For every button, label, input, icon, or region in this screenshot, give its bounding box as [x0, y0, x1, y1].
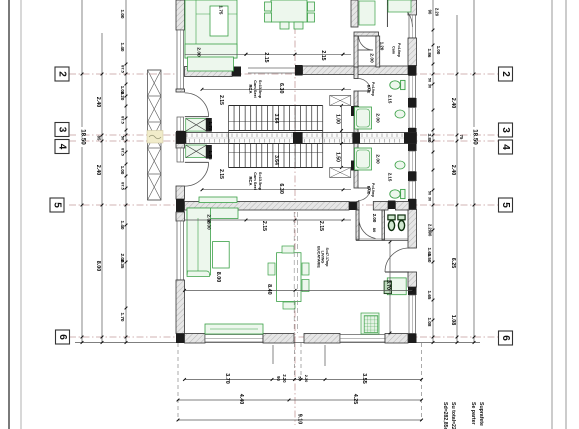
svg-text:1.08: 1.08 [450, 315, 456, 326]
svg-text:Se parter: Se parter [470, 402, 476, 425]
svg-text:Suprafete: Suprafete [478, 402, 484, 426]
svg-text:2.15: 2.15 [387, 173, 392, 182]
svg-text:Cam Seel: Cam Seel [253, 80, 258, 98]
svg-text:3.64: 3.64 [273, 114, 279, 124]
svg-text:1.75: 1.75 [207, 150, 213, 160]
svg-text:2.15: 2.15 [218, 95, 224, 105]
svg-text:6: 6 [500, 335, 511, 341]
svg-text:2.15: 2.15 [218, 169, 224, 179]
svg-text:2.20: 2.20 [282, 374, 287, 383]
svg-text:1.70: 1.70 [120, 313, 125, 322]
svg-text:Sd=282,85mp: Sd=282,85mp [442, 402, 448, 429]
svg-text:90: 90 [276, 376, 281, 381]
svg-text:90: 90 [427, 232, 432, 237]
svg-text:90: 90 [427, 10, 432, 15]
svg-text:87.5: 87.5 [120, 148, 125, 157]
svg-text:2.20: 2.20 [304, 375, 309, 383]
svg-text:1.50: 1.50 [335, 152, 341, 162]
svg-text:4.25: 4.25 [352, 394, 358, 405]
svg-text:1.00: 1.00 [120, 10, 125, 19]
svg-text:85: 85 [96, 136, 101, 141]
svg-text:2: 2 [57, 71, 68, 77]
svg-text:P=4.9mp: P=4.9mp [371, 82, 375, 96]
svg-text:2.35: 2.35 [120, 260, 125, 269]
svg-text:50: 50 [427, 191, 432, 195]
svg-text:BAIE: BAIE [367, 186, 371, 195]
svg-text:2: 2 [500, 71, 511, 77]
svg-text:3.64: 3.64 [273, 155, 279, 165]
svg-text:2.20: 2.20 [120, 92, 125, 101]
svg-text:2.00: 2.00 [372, 214, 377, 223]
svg-text:3.70: 3.70 [224, 373, 230, 384]
svg-text:4: 4 [57, 144, 68, 150]
svg-text:2.15: 2.15 [318, 221, 324, 231]
svg-text:RCA: RCA [248, 176, 253, 185]
svg-text:2.40: 2.40 [95, 97, 101, 108]
svg-text:6.25: 6.25 [450, 258, 456, 269]
svg-text:3: 3 [500, 127, 511, 133]
svg-text:2.00: 2.00 [374, 113, 380, 123]
svg-text:2.40: 2.40 [450, 165, 456, 176]
svg-text:8.00: 8.00 [95, 261, 101, 272]
svg-text:6.30: 6.30 [278, 183, 284, 194]
svg-text:Su total=221,4mp: Su total=221,4mp [450, 402, 456, 429]
svg-text:6.30: 6.30 [278, 83, 284, 94]
svg-text:2.20: 2.20 [434, 8, 439, 17]
svg-text:2.40: 2.40 [450, 98, 456, 109]
svg-text:50: 50 [427, 78, 432, 82]
svg-text:1.00: 1.00 [120, 166, 125, 175]
svg-text:2.15: 2.15 [261, 221, 267, 231]
svg-text:2.00: 2.00 [374, 154, 380, 164]
svg-text:4.40: 4.40 [238, 394, 244, 405]
svg-text:2.15: 2.15 [263, 52, 269, 62]
svg-text:BUCATARIE: BUCATARIE [316, 246, 320, 268]
svg-text:S=47.17mp: S=47.17mp [325, 248, 329, 268]
svg-text:18.50: 18.50 [471, 129, 478, 145]
svg-text:S=13.5mp: S=13.5mp [258, 172, 263, 191]
svg-text:2.00: 2.00 [368, 53, 374, 63]
svg-text:5: 5 [52, 202, 63, 208]
svg-text:1.75: 1.75 [218, 6, 223, 15]
svg-text:1.50: 1.50 [427, 254, 432, 263]
svg-text:1.08: 1.08 [427, 318, 432, 327]
svg-text:87.5: 87.5 [120, 116, 125, 125]
svg-text:3.80: 3.80 [427, 134, 432, 143]
svg-text:1.40: 1.40 [120, 43, 125, 52]
svg-text:3: 3 [57, 127, 68, 133]
svg-text:2.00: 2.00 [195, 47, 201, 57]
svg-text:1.75: 1.75 [207, 121, 213, 131]
svg-text:2.00: 2.00 [205, 214, 211, 224]
svg-text:9.10: 9.10 [297, 414, 303, 425]
svg-text:P=4.6mp: P=4.6mp [397, 43, 401, 57]
svg-text:8.00: 8.00 [215, 272, 221, 283]
svg-text:2.15: 2.15 [387, 95, 392, 104]
svg-text:RCA: RCA [248, 84, 253, 93]
svg-text:30: 30 [427, 84, 432, 88]
svg-text:2.15: 2.15 [320, 50, 326, 60]
svg-text:1.65: 1.65 [427, 291, 432, 300]
svg-text:LIVING: LIVING [321, 251, 325, 264]
svg-text:8.40: 8.40 [266, 284, 272, 295]
svg-text:30: 30 [427, 197, 432, 201]
svg-text:3.70: 3.70 [385, 280, 391, 290]
svg-text:6: 6 [57, 334, 68, 340]
svg-text:5: 5 [500, 202, 511, 208]
svg-text:1.00: 1.00 [436, 46, 441, 55]
svg-text:75: 75 [459, 135, 464, 140]
svg-text:S=13.5mp: S=13.5mp [258, 80, 263, 99]
svg-text:Cam: Cam [392, 46, 396, 54]
svg-text:BAIE: BAIE [367, 85, 371, 94]
svg-text:18.50: 18.50 [79, 129, 86, 145]
svg-text:1.40: 1.40 [120, 221, 125, 230]
svg-text:87.5: 87.5 [120, 65, 125, 74]
svg-text:1.86: 1.86 [427, 49, 432, 58]
svg-text:Cam Seel: Cam Seel [253, 172, 258, 190]
svg-text:1.20: 1.20 [379, 42, 384, 51]
svg-text:50: 50 [298, 376, 303, 380]
svg-text:3.55: 3.55 [361, 373, 367, 384]
svg-text:87.5: 87.5 [120, 182, 125, 191]
svg-text:80: 80 [372, 228, 377, 233]
svg-text:1.00: 1.00 [335, 114, 341, 124]
svg-text:50: 50 [120, 136, 125, 141]
svg-text:4: 4 [500, 144, 511, 150]
svg-text:2.40: 2.40 [95, 165, 101, 176]
svg-text:P=4.9mp: P=4.9mp [371, 183, 375, 197]
